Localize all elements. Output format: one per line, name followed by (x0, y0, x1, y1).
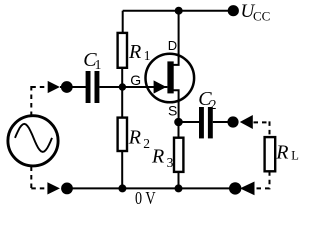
svg-text:R: R (128, 41, 141, 63)
svg-text:L: L (291, 148, 299, 162)
svg-text:1: 1 (144, 48, 151, 63)
svg-text:G: G (130, 72, 141, 88)
svg-text:1: 1 (95, 57, 102, 72)
svg-text:R: R (128, 126, 141, 148)
svg-text:R: R (275, 142, 288, 164)
svg-text:D: D (168, 38, 177, 53)
svg-text:2: 2 (143, 136, 150, 151)
svg-text:0 V: 0 V (135, 188, 156, 208)
svg-text:R: R (151, 146, 164, 168)
svg-text:2: 2 (210, 97, 217, 112)
svg-text:S: S (168, 103, 177, 119)
svg-text:3: 3 (167, 155, 174, 170)
svg-text:CC: CC (253, 9, 270, 24)
